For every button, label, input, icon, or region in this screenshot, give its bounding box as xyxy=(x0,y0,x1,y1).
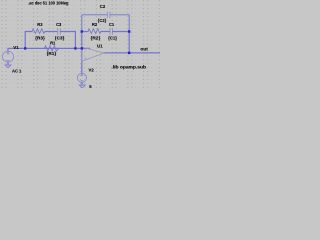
capacitor C2 xyxy=(107,12,110,18)
node B junction inverting xyxy=(81,47,83,49)
V1 plus glyph xyxy=(7,52,9,54)
svg-text:{C2}: {C2} xyxy=(98,18,107,23)
wire inverting column down to V2 xyxy=(81,32,83,74)
op-amp plus glyph xyxy=(84,57,86,59)
svg-text:C1: C1 xyxy=(109,22,115,27)
ground below V2 xyxy=(79,85,85,88)
svg-text:R1: R1 xyxy=(50,41,56,46)
wire R2 row start xyxy=(82,31,88,33)
resistor R3 xyxy=(32,29,45,34)
capacitor C3 xyxy=(58,28,61,34)
resistor R1 xyxy=(45,46,59,51)
wire node A vertical xyxy=(25,32,32,49)
svg-text:R2: R2 xyxy=(92,22,98,27)
wire C2 top branch left xyxy=(82,15,108,32)
voltage source V1 circle xyxy=(3,51,14,62)
svg-text:{R2}: {R2} xyxy=(91,36,101,41)
wire C3 to corner down to node B xyxy=(60,32,75,49)
wire V2 bottom stub xyxy=(81,82,83,85)
junction C2/R2 xyxy=(81,30,83,32)
junction out column top xyxy=(128,30,130,32)
voltage source V2 circle xyxy=(78,73,87,82)
wire out column vertical xyxy=(128,32,130,53)
junction out row xyxy=(128,52,130,54)
node B junction R3C3 xyxy=(74,47,76,49)
wire R3 to C3 xyxy=(45,31,58,33)
svg-text:C3: C3 xyxy=(56,22,62,27)
node A junction xyxy=(24,47,26,49)
wire C2 top branch right xyxy=(110,15,129,32)
svg-text:C2: C2 xyxy=(100,4,106,9)
svg-text:R3: R3 xyxy=(37,22,43,27)
wire output row xyxy=(104,52,160,54)
wire V1 bottom stub xyxy=(7,62,9,65)
wire R2 to C1 xyxy=(101,31,110,33)
V1 minus glyph xyxy=(7,59,10,61)
svg-text:.ac dec 51 100 10Meg: .ac dec 51 100 10Meg xyxy=(28,1,69,6)
resistor R2 xyxy=(88,29,101,34)
svg-text:U1: U1 xyxy=(97,43,103,48)
V2 minus glyph xyxy=(81,80,83,82)
junction dots xyxy=(24,30,130,54)
svg-text:{R1}: {R1} xyxy=(47,51,57,56)
V2 plus glyph xyxy=(81,74,83,76)
svg-text:V1: V1 xyxy=(13,45,19,50)
svg-text:.lib opamp.sub: .lib opamp.sub xyxy=(111,64,146,69)
svg-text:V2: V2 xyxy=(89,67,95,72)
svg-text:AC 1: AC 1 xyxy=(12,69,22,74)
wire C1 to out column xyxy=(113,31,130,33)
op-amp minus glyph xyxy=(84,49,86,51)
capacitor C1 xyxy=(110,28,113,34)
ground below V1 xyxy=(5,65,11,68)
wire node row V1 to opamp xyxy=(8,48,90,51)
svg-text:{C1}: {C1} xyxy=(108,36,117,41)
svg-text:out: out xyxy=(140,46,148,51)
op-amp U1 triangle xyxy=(82,47,104,61)
svg-text:{C3}: {C3} xyxy=(55,36,65,41)
svg-text:{R3}: {R3} xyxy=(35,36,45,41)
